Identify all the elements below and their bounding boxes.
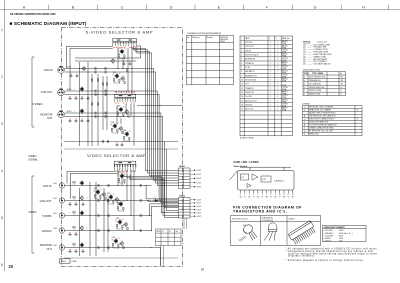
resistor R425	[73, 244, 75, 245]
wire below CB302 pin2	[186, 218, 188, 229]
svg-text:MD/TAPE IN: MD/TAPE IN	[245, 58, 256, 61]
svg-text:VCR2 (V1,V2) IN: VCR2 (V1,V2) IN	[245, 55, 259, 57]
svg-text:1: 1	[270, 50, 271, 52]
power rail GND	[64, 148, 178, 150]
svg-text:1: 1	[270, 42, 271, 44]
table: connector parts list	[241, 37, 290, 112]
V-VCR-IN wire	[65, 185, 152, 187]
V-VCR-OUT wire	[65, 200, 152, 202]
transistor Q309 cluster	[122, 130, 130, 141]
svg-text:MONITOR: MONITOR	[40, 243, 52, 247]
svg-text:1: 1	[270, 67, 271, 69]
svg-text:18: 18	[116, 108, 118, 110]
IC301 pin value labels	[115, 91, 135, 94]
capacitor C421 (series)	[98, 184, 99, 187]
resistor R316	[97, 79, 98, 81]
S-VCR-OUT Y wire	[65, 90, 141, 92]
svg-text:CB301: CB301	[179, 166, 185, 168]
svg-text:18: 18	[115, 221, 117, 223]
capacitor C424 (series)	[108, 199, 109, 202]
resistor R317	[91, 103, 92, 105]
IC301 internal blocks	[241, 174, 272, 188]
svg-text:VCR-IN: VCR-IN	[44, 68, 53, 72]
resistor R421	[73, 182, 75, 183]
vertical feed wires video	[89, 182, 91, 256]
svg-text:●: ●	[304, 128, 305, 130]
svg-text:1: 1	[270, 92, 271, 94]
svg-text:1: 1	[277, 100, 278, 102]
svg-text:VCR2 (V1,V2): VCR2 (V1,V2)	[245, 80, 257, 82]
svg-text:1: 1	[270, 109, 271, 111]
svg-text:TV/DBS IN: TV/DBS IN	[245, 63, 254, 65]
svg-text:1: 1	[241, 42, 242, 44]
bus wire S1	[140, 69, 179, 181]
svg-text:1SS133 DIODE: 1SS133 DIODE	[309, 90, 322, 92]
resistor R422	[73, 197, 75, 198]
svg-text:1: 1	[270, 84, 271, 86]
feed route to jack row 2 (S)	[70, 49, 113, 92]
svg-text:8: 8	[241, 71, 242, 73]
capacitor C310	[86, 120, 90, 122]
svg-text:7: 7	[241, 67, 242, 69]
svg-text:▲: ▲	[304, 118, 306, 121]
transistor Q424	[79, 225, 83, 231]
svg-text:1: 1	[277, 50, 278, 52]
junction dots S-video	[79, 68, 80, 69]
svg-text:TV/DBS: TV/DBS	[42, 214, 52, 218]
capacitor C322 (series)	[105, 67, 106, 70]
wires top distribution	[137, 46, 141, 58]
S-VCR-IN Y wire	[65, 68, 141, 70]
svg-text:1: 1	[270, 75, 271, 77]
capacitor C407	[68, 233, 72, 235]
bus wire S2	[140, 72, 179, 183]
svg-text:18: 18	[122, 133, 124, 135]
capacitor C306	[86, 97, 90, 99]
capacitor C426 (series)	[108, 214, 109, 217]
svg-text:1: 1	[270, 80, 271, 82]
video amp cluster Q403	[106, 193, 119, 205]
svg-text:(9): (9)	[303, 64, 306, 66]
svg-text:MD-2 OUT: MD-2 OUT	[245, 109, 254, 111]
V-MON wire	[65, 247, 152, 249]
capacitor C323 (series)	[95, 71, 96, 74]
transistor Q421	[79, 180, 83, 186]
resistor R321	[126, 69, 127, 71]
RCA jack J404	[59, 228, 64, 233]
feed route video row 2	[71, 174, 119, 199]
edge connector CB302	[179, 198, 191, 219]
junction dot V3	[149, 215, 150, 216]
svg-text:CB303/304: CB303/304	[220, 39, 228, 41]
RCA jack J402	[59, 198, 64, 203]
svg-text:1: 1	[270, 105, 271, 107]
bus wire V2	[148, 200, 179, 203]
junction dots video	[79, 200, 80, 201]
feed route video row 1	[67, 172, 115, 184]
svg-text:Q309: Q309	[123, 130, 127, 132]
svg-text:* Schematic diagram is subject: * Schematic diagram is subject to change…	[286, 259, 365, 262]
capacitor C324 (series)	[105, 71, 106, 74]
svg-text:1: 1	[277, 109, 278, 111]
svg-text:→ DI02: → DI02	[337, 240, 343, 242]
svg-text:GN: GN	[265, 196, 267, 198]
svg-text:16: 16	[241, 105, 243, 107]
bus wire S5	[140, 113, 179, 203]
capacitor C305	[80, 97, 84, 99]
capacitor C330 (series)	[105, 112, 106, 115]
transistor Q307 cluster	[116, 106, 129, 118]
svg-text:1: 1	[277, 105, 278, 107]
capacitor C405	[74, 250, 78, 252]
svg-text:2SC1740S (R,S,T,U): 2SC1740S (R,S,T,U)	[232, 219, 248, 221]
RCA jack J401	[59, 183, 64, 188]
svg-text:CB305: CB305	[220, 41, 225, 43]
svg-text:GN: GN	[257, 196, 259, 198]
svg-text:VCR-OUT: VCR-OUT	[41, 90, 53, 94]
vertical feed wires S-video	[79, 62, 81, 146]
svg-text:12: 12	[288, 194, 290, 196]
vertical drops from CB404	[117, 170, 119, 186]
svg-text:MUTE: MUTE	[156, 231, 160, 233]
svg-text:■: ■	[304, 116, 305, 118]
capacitor C403	[81, 203, 85, 205]
svg-text:1: 1	[277, 55, 278, 57]
transistor Q425	[79, 242, 83, 248]
svg-text:Q308: Q308	[111, 122, 115, 124]
svg-text:MA111 DIODE: MA111 DIODE	[309, 93, 321, 96]
input PCB board outline (dash-dot)	[62, 28, 183, 267]
transistor Q401 cluster	[117, 172, 125, 183]
yamaha part numbers table	[323, 226, 367, 242]
transistor package 2SC1740S drawing	[239, 223, 260, 242]
svg-text:18: 18	[110, 125, 112, 127]
svg-text:CB03: CB03	[61, 261, 67, 263]
video amp cluster Q402	[93, 188, 106, 200]
S-MONITOR C wire	[65, 116, 141, 118]
svg-text:1: 1	[270, 59, 271, 61]
S-VCR-OUT C wire	[65, 94, 141, 96]
capacitor C408	[74, 233, 78, 235]
svg-text:9: 9	[241, 75, 242, 77]
svg-text:→ VK33: → VK33	[337, 238, 343, 240]
svg-text:21: 21	[86, 227, 88, 229]
svg-text:→ GR58: → GR58	[337, 230, 343, 232]
svg-text:■ SCHEMATIC DIAGRAM (INPUT): ■ SCHEMATIC DIAGRAM (INPUT)	[10, 21, 87, 26]
bus wire S4	[140, 95, 179, 201]
svg-text:S-OUT: S-OUT	[197, 209, 202, 211]
svg-text:1: 1	[277, 96, 278, 98]
capacitor C331 (series)	[95, 115, 96, 118]
bus wire monitor out	[150, 248, 161, 267]
edge connector CB301	[179, 168, 191, 189]
capacitor C318 (series)	[103, 140, 104, 143]
svg-text:1: 1	[277, 92, 278, 94]
bus wire from GND rail	[166, 149, 178, 210]
svg-text:1: 1	[270, 100, 271, 102]
capacitor C406	[81, 250, 85, 252]
svg-text:PIN CONNECTION DIAGRAM OF: PIN CONNECTION DIAGRAM OF	[233, 205, 302, 209]
svg-text:18: 18	[117, 50, 119, 52]
svg-text:▲: ▲	[304, 106, 306, 109]
svg-text:YAMAHA PART NUMBERS: YAMAHA PART NUMBERS	[324, 226, 346, 229]
connector CB03	[60, 259, 71, 263]
svg-text:Reference: Reference	[192, 37, 199, 39]
svg-text:12: 12	[241, 88, 243, 90]
capacitor C327 (series)	[95, 93, 96, 96]
svg-text:originally installed.: originally installed.	[288, 255, 315, 258]
feed route to jack row 1 (S)	[67, 46, 113, 68]
svg-text:3: 3	[1, 122, 3, 126]
svg-text:43: 43	[113, 194, 115, 196]
svg-text:A : ASS'Y PWB No.: A : ASS'Y PWB No.	[240, 136, 255, 139]
svg-text:* All voltages are measured wi: * All voltages are measured with a 100kΩ…	[286, 247, 378, 250]
svg-text:S-OUT: S-OUT	[197, 213, 202, 215]
transistor Q422	[79, 195, 83, 201]
left margin line	[4, 0, 6, 271]
svg-text:GN: GN	[239, 196, 241, 198]
junction dot V4	[151, 230, 152, 231]
svg-text:● DTC144ES: ● DTC144ES	[324, 235, 333, 237]
svg-text:43: 43	[123, 107, 125, 109]
capacitor C443 (series)	[140, 214, 141, 217]
svg-text:●: ●	[304, 122, 305, 124]
connector CB404 with pin row	[114, 161, 136, 171]
svg-text:PHONO IN: PHONO IN	[245, 92, 254, 94]
svg-text:TUNER IN: TUNER IN	[245, 88, 254, 90]
bus wire V1	[146, 186, 178, 199]
svg-text:07: 07	[154, 197, 156, 199]
resistor R320	[106, 83, 107, 85]
capacitor C325 (series)	[95, 90, 96, 93]
transistor package DTA/DTC144 drawing	[264, 223, 277, 241]
svg-text:S-OUT: S-OUT	[197, 206, 202, 208]
svg-text:10: 10	[241, 80, 243, 82]
svg-text:S-OUT: S-OUT	[197, 203, 202, 205]
svg-text:2: 2	[244, 194, 245, 196]
svg-text:6: 6	[241, 63, 242, 65]
svg-text:43: 43	[123, 201, 125, 203]
svg-text:43: 43	[122, 219, 124, 221]
svg-text:9: 9	[275, 194, 276, 196]
bus wire from CB404 pin 2	[127, 175, 179, 216]
S-video jack J302	[58, 89, 65, 96]
capacitor C441 (series)	[140, 184, 141, 187]
bus wire from 9V rail	[165, 142, 179, 208]
svg-text:ECB: ECB	[243, 225, 246, 227]
svg-text:1: 1	[277, 46, 278, 48]
svg-text:DTC144ES (K): DTC144ES (K)	[309, 83, 321, 85]
svg-text:2: 2	[241, 46, 242, 48]
svg-text:1: 1	[270, 88, 271, 90]
svg-text:6: 6	[1, 263, 3, 267]
capacitor C309	[80, 120, 84, 122]
capacitor C402	[74, 203, 78, 205]
svg-text:LA7956-1: LA7956-1	[275, 180, 285, 183]
svg-text:DVD/LD: DVD/LD	[42, 229, 52, 233]
svg-text:18: 18	[111, 240, 113, 242]
V-DVD/LD wire	[65, 230, 152, 232]
svg-text:13: 13	[241, 92, 243, 94]
svg-text:Q410: Q410	[112, 237, 116, 239]
capacitor C326 (series)	[105, 90, 106, 93]
svg-text:43: 43	[118, 238, 120, 240]
S VIDEO group bracket	[32, 57, 35, 127]
svg-text:17: 17	[241, 109, 243, 111]
capacitor C311	[122, 63, 126, 65]
svg-text:S-OUT: S-OUT	[197, 186, 202, 188]
svg-text:1: 1	[277, 67, 278, 69]
svg-text:S-VIDEO SELECTOR & AMP: S-VIDEO SELECTOR & AMP	[86, 29, 154, 34]
capacitor C442 (series)	[140, 199, 141, 202]
svg-text:1: 1	[277, 63, 278, 65]
svg-text:VIDEO: VIDEO	[28, 154, 36, 158]
svg-text:18: 18	[112, 75, 114, 77]
S-video jack J301	[58, 66, 65, 73]
svg-text:S-OUT: S-OUT	[197, 199, 202, 201]
S-video jack J303	[58, 111, 65, 118]
svg-text:1: 1	[277, 80, 278, 82]
bus wire S6	[140, 117, 179, 206]
footnote bullets	[286, 247, 378, 262]
bus wire from CB304 pin 4	[137, 46, 179, 178]
capacitor C304	[74, 97, 78, 99]
capacitor C332 (series)	[105, 115, 106, 118]
svg-text:MD/TAPE OUT: MD/TAPE OUT	[245, 74, 258, 77]
svg-text:S-OUT: S-OUT	[197, 170, 202, 172]
svg-text:1: 1	[277, 75, 278, 77]
capacitor C308	[74, 120, 78, 122]
transistor Q303	[110, 58, 114, 64]
transistor Q306	[79, 108, 83, 114]
svg-text:LA7956: LA7956	[289, 218, 295, 221]
svg-text:1: 1	[277, 88, 278, 90]
transistor Q410 cluster	[111, 237, 124, 249]
svg-text:Q403: Q403	[107, 193, 111, 195]
diode D301	[152, 199, 162, 202]
bus wire S3	[140, 91, 179, 186]
svg-text:43: 43	[124, 49, 126, 51]
svg-text:1: 1	[270, 96, 271, 98]
svg-text:VIDEO SELECTOR & AMP: VIDEO SELECTOR & AMP	[87, 153, 146, 158]
IC301 body	[230, 167, 295, 190]
VIDEO group bracket	[32, 176, 35, 253]
svg-text:DTC144ES (K): DTC144ES (K)	[262, 220, 274, 222]
junction dot V1	[146, 185, 147, 186]
svg-text:COMPARISON WITH A REPRESENTATI: COMPARISON WITH A REPRESENTATIVE	[187, 32, 222, 35]
wire below table 2	[163, 246, 165, 267]
resistor R423	[73, 212, 75, 213]
wire below CB302	[183, 218, 185, 229]
svg-text:5: 5	[241, 59, 242, 61]
bus wire from CB404 pin 3	[130, 175, 179, 218]
svg-text:PART No.: PART No.	[282, 37, 290, 40]
S-VCR-IN C wire	[65, 71, 141, 73]
transistor Q409 cluster	[115, 218, 128, 230]
capacitor C422 (series)	[108, 184, 109, 187]
transistor Q304	[81, 66, 85, 72]
capacitor C312	[128, 63, 132, 65]
svg-text:B-GND: B-GND	[72, 261, 78, 263]
svg-text:—— : VOLTAGE VALUE: —— : VOLTAGE VALUE	[308, 63, 331, 66]
svg-text:OUT: OUT	[47, 116, 53, 120]
IC package LA7956 drawing	[288, 220, 317, 245]
capacitor C307	[68, 120, 72, 122]
capacitor C430 (series)	[108, 246, 109, 249]
svg-text:S VIDEO: S VIDEO	[32, 102, 43, 106]
capacitor C317	[120, 144, 124, 146]
svg-text:CD-R IN: CD-R IN	[245, 96, 252, 98]
junction dot V2	[147, 200, 148, 201]
V-TV/DBS wire	[65, 215, 152, 217]
svg-text:43: 43	[129, 131, 131, 133]
table: comparison chart	[187, 35, 234, 85]
transistor Q305	[79, 86, 83, 92]
svg-text:● 1SS133: ● 1SS133	[324, 240, 331, 242]
svg-text:1: 1	[270, 63, 271, 65]
svg-text:EX. RESISTOR: 562 = 5.6k OHM: EX. RESISTOR: 562 = 5.6k OHM	[309, 131, 333, 133]
capacitor C328 (series)	[105, 93, 106, 96]
RCA jack J405	[59, 245, 64, 250]
ruler column letters	[23, 5, 365, 9]
svg-text:CB302: CB302	[179, 196, 185, 198]
IC301 pins	[241, 190, 293, 193]
capacitor C401	[68, 203, 72, 205]
power rail video	[64, 257, 178, 259]
svg-text:S-OUT: S-OUT	[197, 182, 202, 184]
svg-text:20: 20	[9, 264, 14, 269]
svg-text:1: 1	[1, 28, 3, 32]
capacitor C302	[75, 75, 79, 77]
capacitor C427 (series)	[98, 229, 99, 232]
vertical drops from IC301	[116, 106, 118, 124]
svg-text:10: 10	[279, 194, 281, 196]
svg-text:1: 1	[277, 42, 278, 44]
svg-text:OUT: OUT	[47, 247, 53, 251]
power rail 9V	[64, 141, 178, 143]
capacitor C423 (series)	[98, 199, 99, 202]
ruler ticks	[49, 5, 389, 10]
bus wire from CB404 pin 1	[124, 175, 179, 213]
capacitor C444 (series)	[140, 229, 141, 232]
svg-text:1: 1	[277, 71, 278, 73]
bus wire from CB304 pin 3	[135, 46, 178, 175]
svg-text:IC301 / 306 : LA7956: IC301 / 306 : LA7956	[234, 160, 260, 164]
svg-text:18: 18	[117, 175, 119, 177]
resistor R318	[97, 103, 98, 105]
svg-text:S-OUT: S-OUT	[197, 216, 202, 218]
svg-text:SIGNAL: SIGNAL	[28, 157, 38, 161]
capacitor C301	[69, 75, 73, 77]
svg-text:CB301/302: CB301/302	[220, 37, 228, 39]
svg-text:3: 3	[241, 50, 242, 52]
svg-text:C: C	[121, 5, 124, 9]
svg-text:11: 11	[241, 84, 243, 86]
resistor R319	[102, 83, 103, 85]
svg-text:( mean of ): ( mean of )	[317, 42, 327, 44]
bus wire V4	[152, 206, 179, 230]
svg-text:4: 4	[241, 55, 242, 57]
svg-text:Q402: Q402	[94, 188, 98, 190]
capacitor C428 (series)	[108, 229, 109, 232]
transistor Q301 cluster	[117, 48, 125, 59]
capacitor C316	[115, 144, 119, 146]
svg-text:G: G	[314, 5, 317, 9]
bus wire from CB304 pin 2	[133, 46, 178, 173]
capacitor C303	[68, 97, 72, 99]
svg-text:18: 18	[93, 191, 95, 193]
svg-text:→ HD24: → HD24	[337, 235, 343, 237]
